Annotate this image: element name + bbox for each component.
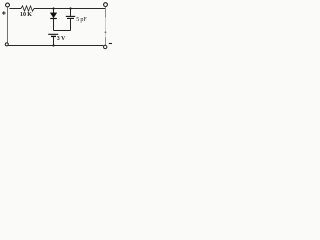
wire L from diode cathode to capacitor bottom xyxy=(54,30,71,32)
wire top rail right segment xyxy=(34,8,105,10)
minus sign xyxy=(109,43,112,45)
node junction diode-top xyxy=(52,7,54,9)
label 5 pF xyxy=(76,17,87,23)
wire bottom rail xyxy=(8,45,103,47)
wire right vertical upper segment xyxy=(105,7,107,18)
wire left vertical xyxy=(7,7,9,43)
diode D1 (pointing down) xyxy=(50,9,57,31)
terminal bottom-right xyxy=(104,45,107,48)
svg-text:3 V: 3 V xyxy=(57,36,66,42)
terminal bottom-left xyxy=(5,43,8,46)
wire right vertical lower segment xyxy=(105,38,107,46)
plus sign xyxy=(2,11,6,15)
resistor R1 10 K xyxy=(21,6,34,11)
wire top rail left segment xyxy=(9,8,21,10)
svg-text:5 pF: 5 pF xyxy=(76,17,87,23)
node junction capacitor-top xyxy=(69,7,71,9)
battery 3 V xyxy=(48,34,58,45)
label 10 K xyxy=(20,12,32,18)
terminal top-left (+ input) xyxy=(6,3,10,7)
svg-text:10 K: 10 K xyxy=(20,12,32,18)
node junction battery-bottom xyxy=(52,44,54,46)
terminal top-right xyxy=(104,3,108,7)
node dot on right wire xyxy=(105,31,107,33)
wire right vertical middle faint segment xyxy=(105,18,107,38)
label 3 V xyxy=(57,36,66,42)
capacitor C1 xyxy=(66,9,75,31)
